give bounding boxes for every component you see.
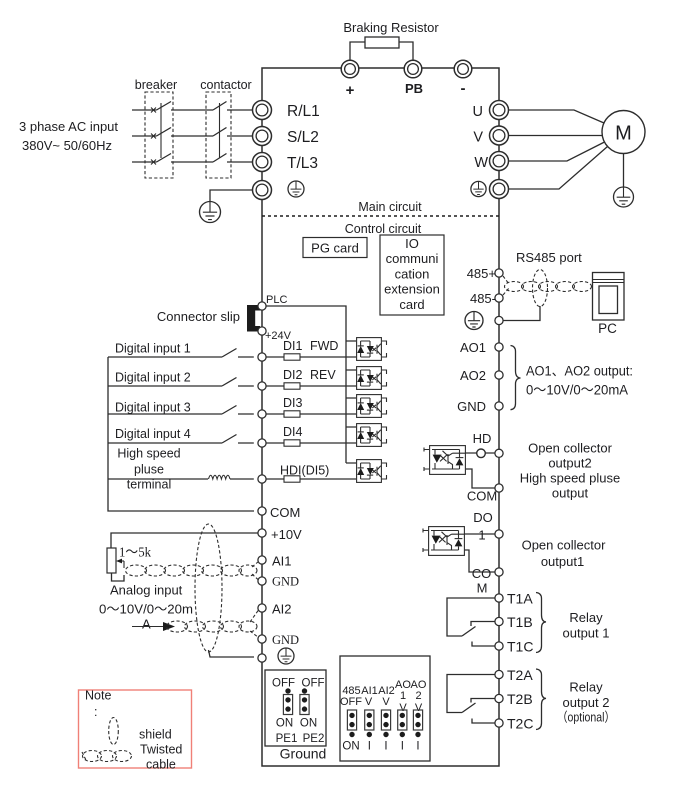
wire motor to earth	[623, 154, 625, 187]
terminal GND 2	[258, 635, 266, 643]
svg-text:Digital input 2: Digital input 2	[115, 371, 191, 385]
terminal DI1	[258, 353, 266, 361]
svg-text:R/L1: R/L1	[287, 103, 320, 120]
svg-text:Main circuit: Main circuit	[358, 200, 422, 214]
svg-text:I: I	[416, 741, 419, 753]
terminal COM right	[495, 484, 503, 492]
arrow into AI2 cable	[132, 626, 163, 628]
svg-text:2: 2	[415, 690, 421, 702]
terminal PE left	[253, 181, 272, 200]
terminal PE analog	[258, 654, 266, 662]
optocoupler DI2	[357, 367, 382, 390]
svg-text:T1A: T1A	[507, 591, 533, 607]
svg-text:+: +	[346, 82, 355, 99]
jumper AI1	[365, 710, 374, 730]
svg-text:DI1: DI1	[283, 339, 303, 353]
shield ellipse analog	[195, 524, 222, 652]
svg-text:Analog input: Analog input	[110, 583, 183, 598]
svg-text:shield: shield	[139, 728, 172, 742]
terminal PE 485	[495, 316, 503, 324]
svg-text:T2B: T2B	[507, 691, 533, 707]
svg-text:PG card: PG card	[311, 241, 359, 256]
shield symbol note	[109, 718, 119, 745]
svg-text:1～5k: 1～5k	[119, 545, 151, 560]
wire +10V to potentiometer	[111, 533, 258, 548]
terminal DI2	[258, 382, 266, 390]
terminal 485+	[495, 269, 503, 277]
wire PE input to earth	[210, 190, 252, 201]
svg-text:+10V: +10V	[271, 527, 302, 542]
shield ellipse RS485	[533, 270, 548, 307]
jumper AO2	[413, 710, 422, 730]
shield drain to PE 485	[503, 306, 540, 321]
svg-text:PC: PC	[598, 321, 617, 336]
wire PLC to opto bus	[266, 306, 346, 463]
svg-text:cation: cation	[395, 266, 430, 281]
wire opto to DO terminal	[464, 533, 495, 535]
svg-text:cable: cable	[146, 758, 176, 772]
svg-text:REV: REV	[310, 368, 336, 382]
connector slip black bracket	[247, 305, 260, 332]
terminal S/L2	[253, 127, 272, 146]
wire resistor to PB terminal	[399, 42, 413, 60]
terminal T2B	[495, 694, 503, 702]
svg-text:1: 1	[400, 690, 406, 702]
svg-text:OFF: OFF	[340, 696, 362, 708]
brace AO output	[511, 346, 521, 410]
terminal DO	[495, 530, 503, 538]
resistor braking	[365, 37, 399, 48]
svg-text:OFF: OFF	[302, 678, 325, 690]
twisted cable RS485	[503, 276, 592, 295]
svg-text:output 1: output 1	[563, 626, 610, 641]
potentiometer bottom lead	[112, 573, 125, 581]
breaker linkage	[160, 103, 162, 158]
ground symbol 485	[465, 312, 483, 330]
svg-text:3 phase AC input: 3 phase AC input	[19, 119, 118, 134]
twisted cable AI2	[167, 610, 259, 638]
terminal PE right	[490, 180, 509, 199]
svg-text:contactor: contactor	[200, 78, 251, 92]
svg-text:T2A: T2A	[507, 667, 533, 683]
svg-text:pluse: pluse	[134, 463, 164, 477]
optocoupler DO output	[429, 527, 465, 556]
svg-text:High speed: High speed	[117, 447, 180, 461]
digital input left bus	[108, 357, 254, 511]
terminal T1B	[495, 617, 503, 625]
svg-text:CO: CO	[472, 566, 492, 581]
svg-text:V: V	[399, 702, 407, 714]
terminal minus	[454, 60, 472, 78]
breaker dashed box	[145, 92, 173, 178]
ground symbol analog PE	[278, 648, 294, 664]
svg-text:S/L2: S/L2	[287, 129, 319, 146]
phase R wire with breaker and contactor	[132, 102, 252, 113]
svg-text:extension: extension	[384, 282, 440, 297]
svg-text:terminal: terminal	[127, 478, 171, 492]
resistor DI1	[284, 354, 300, 360]
svg-text:card: card	[399, 297, 424, 312]
jumper AO1	[398, 710, 407, 730]
potentiometer wiper arrow	[120, 560, 125, 562]
terminal U	[490, 101, 509, 120]
svg-text:Digital input 4: Digital input 4	[115, 427, 191, 441]
PE jumper box	[265, 670, 326, 746]
wire + terminal to resistor	[350, 42, 365, 60]
motor M	[602, 111, 645, 154]
inverter enclosure box	[262, 68, 499, 766]
ground below contactor	[200, 202, 221, 223]
digital input 4 wire with switch	[108, 435, 254, 444]
wire PE to motor	[509, 147, 608, 190]
svg-text:Digital input 1: Digital input 1	[115, 342, 191, 356]
ground symbol inside box left	[288, 181, 304, 197]
IO communication extension card box	[380, 235, 444, 315]
svg-text:A: A	[142, 617, 151, 632]
svg-text:DI2: DI2	[283, 368, 303, 382]
coil on HDI wire	[209, 475, 231, 479]
VI jumper box	[340, 656, 430, 761]
svg-text:RS485 port: RS485 port	[516, 250, 582, 265]
svg-text:AO1: AO1	[460, 340, 486, 355]
terminal 485-	[495, 294, 503, 302]
jumper 485	[347, 710, 356, 730]
wire HDI to opto	[266, 478, 356, 480]
PE1 jumper header	[283, 695, 292, 715]
svg-text:ON: ON	[342, 741, 359, 753]
svg-text:FWD: FWD	[310, 339, 338, 353]
svg-text:HDI(DI5): HDI(DI5)	[280, 464, 329, 478]
HDI wire with coil	[108, 478, 254, 480]
svg-text:GND: GND	[457, 399, 486, 414]
phase S wire with breaker and contactor	[132, 128, 252, 139]
terminal AO1	[495, 343, 503, 351]
brace relay 1	[536, 593, 546, 653]
separator Main/Control circuit	[262, 215, 499, 217]
svg-text:V: V	[415, 702, 423, 714]
wire opto to HD terminal	[465, 452, 495, 454]
PC box	[593, 273, 625, 321]
opto bus stubs	[346, 341, 356, 463]
svg-text:Control circuit: Control circuit	[345, 222, 422, 236]
optocoupler HDI	[357, 460, 382, 483]
svg-text:Relay: Relay	[569, 680, 603, 695]
svg-text:communi: communi	[386, 251, 439, 266]
terminal GND AO	[495, 402, 503, 410]
svg-text:T/L3: T/L3	[287, 155, 318, 172]
terminal AI1	[258, 556, 266, 564]
terminal DI4	[258, 439, 266, 447]
terminal T1A	[495, 594, 503, 602]
wire DI4 to opto	[266, 442, 356, 444]
digital input 3 wire with switch	[108, 406, 254, 415]
PE2 top pin	[302, 688, 307, 693]
svg-text:0～10V/0～20m: 0～10V/0～20m	[99, 602, 193, 617]
terminal T/L3	[253, 153, 272, 172]
PG card box	[303, 238, 367, 258]
svg-text:DI4: DI4	[283, 425, 303, 439]
terminal T1C	[495, 642, 503, 650]
resistor DI4	[284, 440, 300, 446]
ground below motor	[614, 187, 634, 207]
resistor DI3	[284, 411, 300, 417]
svg-text:Open collector: Open collector	[528, 441, 612, 456]
svg-text:DI3: DI3	[283, 396, 303, 410]
wire DI1 to opto	[266, 356, 356, 358]
terminal +10V	[258, 529, 266, 537]
svg-text:I: I	[401, 741, 404, 753]
svg-text:T1B: T1B	[507, 614, 533, 630]
svg-text:output: output	[552, 486, 589, 501]
opto DO left stubs	[423, 529, 428, 553]
svg-text:0～10V/0～20mA: 0～10V/0～20mA	[526, 383, 628, 398]
svg-text:M: M	[477, 581, 488, 596]
label Open collector output2 High speed pluse output	[520, 441, 620, 501]
svg-text:output2: output2	[548, 456, 591, 471]
svg-text:OFF: OFF	[272, 678, 295, 690]
svg-text:485-: 485-	[470, 291, 496, 306]
svg-text:COM: COM	[270, 505, 300, 520]
svg-text:V: V	[473, 130, 483, 146]
svg-text:T1C: T1C	[507, 639, 533, 655]
terminal DI3	[258, 410, 266, 418]
twisted cable AI1	[126, 562, 259, 581]
svg-text:AO1、AO2 output:: AO1、AO2 output:	[526, 364, 633, 379]
svg-text:IO: IO	[405, 236, 419, 251]
svg-text:M: M	[615, 123, 632, 145]
svg-text:Twisted: Twisted	[140, 743, 182, 757]
phase T wire with breaker and contactor	[132, 154, 252, 165]
svg-text:output1: output1	[541, 554, 584, 569]
terminal +24V	[258, 327, 266, 335]
terminal T2C	[495, 719, 503, 727]
svg-text:PB: PB	[405, 81, 423, 96]
svg-text:PLC: PLC	[266, 294, 287, 306]
svg-text:Note: Note	[85, 689, 111, 703]
PE2 jumper header	[300, 695, 309, 715]
wire W to motor	[509, 142, 605, 161]
svg-text:I: I	[384, 741, 387, 753]
svg-text:ON: ON	[276, 718, 293, 730]
brace relay 2	[536, 669, 546, 730]
terminal T2A	[495, 670, 503, 678]
potentiometer 1~5k	[107, 548, 116, 573]
svg-text:485+: 485+	[467, 266, 496, 281]
terminal W	[490, 152, 509, 171]
resistor HDI	[284, 476, 300, 482]
contactor dashed box	[206, 92, 231, 178]
svg-text:COM: COM	[467, 489, 497, 504]
relay 2 contact	[447, 675, 495, 724]
svg-text:W: W	[474, 155, 488, 171]
svg-text:High speed pluse: High speed pluse	[520, 471, 620, 486]
terminal AO2	[495, 371, 503, 379]
wire opto to CO M terminal	[464, 550, 495, 572]
ground symbol inside box right	[471, 181, 486, 196]
optocoupler DI3	[357, 395, 382, 418]
svg-text:GND: GND	[272, 633, 299, 647]
svg-text:I: I	[368, 741, 371, 753]
terminal CO M	[495, 568, 503, 576]
svg-text:Braking Resistor: Braking Resistor	[343, 20, 439, 35]
wire opto to COM terminal	[465, 469, 495, 488]
note box red border	[79, 690, 192, 768]
svg-text:PE2: PE2	[303, 733, 325, 745]
terminal COM	[258, 507, 266, 515]
svg-text:DO: DO	[473, 510, 493, 525]
shield drain wire to PE	[209, 650, 255, 657]
svg-text:breaker: breaker	[135, 78, 177, 92]
terminal PB	[404, 60, 422, 78]
terminal +	[341, 60, 359, 78]
svg-text:GND: GND	[272, 575, 299, 589]
svg-text:Digital input 3: Digital input 3	[115, 401, 191, 415]
svg-text:AI2: AI2	[272, 602, 292, 617]
wire DI3 to opto	[266, 413, 356, 415]
svg-text:V: V	[382, 696, 390, 708]
relay 1 contact	[447, 598, 495, 646]
svg-text:Relay: Relay	[569, 610, 603, 625]
svg-text:1: 1	[478, 528, 485, 543]
svg-text:AO2: AO2	[460, 368, 486, 383]
opto HD left stubs	[424, 448, 429, 472]
PE1 top pin	[285, 688, 290, 693]
svg-text:380V~ 50/60Hz: 380V~ 50/60Hz	[22, 138, 112, 153]
wire DI2 to opto	[266, 385, 356, 387]
jumper AI2	[381, 710, 390, 730]
resistor DI2	[284, 383, 300, 389]
wire V to motor	[509, 135, 603, 137]
svg-text::: :	[94, 705, 97, 719]
optocoupler DI4	[357, 424, 382, 447]
svg-text:AI1: AI1	[272, 554, 292, 569]
optocoupler DI1	[357, 338, 382, 361]
wiper lead to cable	[123, 561, 125, 568]
terminal AI2	[258, 604, 266, 612]
digital input 2 wire with switch	[108, 378, 254, 387]
svg-text:U: U	[473, 104, 483, 120]
svg-text:PE1: PE1	[276, 733, 298, 745]
terminal GND 1	[258, 577, 266, 585]
svg-text:（optional）: （optional）	[557, 710, 615, 725]
twisted cable symbol note	[82, 751, 132, 762]
terminal HD	[495, 449, 503, 457]
svg-text:output 2: output 2	[563, 695, 610, 710]
svg-text:Ground: Ground	[280, 746, 327, 762]
svg-text:T2C: T2C	[507, 716, 533, 732]
svg-text:HD: HD	[473, 431, 492, 446]
wire U to motor	[509, 110, 605, 123]
terminal R/L1	[253, 101, 272, 120]
digital input 1 wire with switch	[108, 349, 254, 358]
svg-text:Connector slip: Connector slip	[157, 309, 240, 324]
open collector circle on HD wire	[477, 449, 486, 458]
contactor linkage	[219, 103, 221, 158]
svg-text:Open collector: Open collector	[522, 538, 606, 553]
terminal HDI	[258, 475, 266, 483]
svg-text:V: V	[365, 696, 373, 708]
optocoupler HD output	[430, 446, 466, 475]
terminal V	[490, 126, 509, 145]
svg-text:-: -	[461, 80, 466, 97]
svg-text:ON: ON	[300, 718, 317, 730]
terminal PLC	[258, 302, 266, 310]
